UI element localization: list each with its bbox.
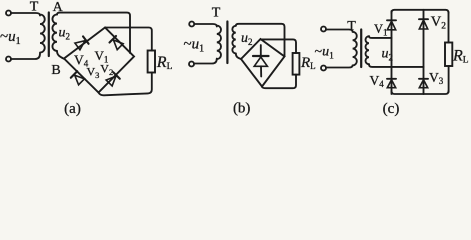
terminal (c) bottom input xyxy=(321,66,326,71)
diode V1 xyxy=(110,36,124,50)
transformer T2 core xyxy=(226,22,228,64)
top rail (c) xyxy=(392,10,449,13)
wire node A to bridge right vertex xyxy=(57,13,130,53)
wire secondary bottom to bridge left vertex (b) xyxy=(236,53,241,59)
diode V2 xyxy=(106,72,120,86)
svg-text:V3: V3 xyxy=(87,65,100,80)
bottom rail (c) xyxy=(392,91,449,94)
svg-text:~u1: ~u1 xyxy=(0,29,21,47)
svg-text:~u1: ~u1 xyxy=(184,37,205,55)
diode V4 (c) xyxy=(387,79,396,88)
wire (b) top input to primary xyxy=(194,24,216,27)
wire secondary bottom to branch-2 junction (c), crossing branch-1 xyxy=(369,64,424,67)
wire secondary top to branch-1 junction (c) xyxy=(369,36,392,38)
wire (c) bottom input to primary xyxy=(326,65,352,67)
svg-text:u2: u2 xyxy=(241,31,253,47)
svg-text:B: B xyxy=(51,63,60,78)
transformer T3 secondary winding xyxy=(366,36,370,64)
resistor RL (c) xyxy=(445,43,452,67)
svg-text:T: T xyxy=(212,5,221,20)
wire RL top lead (c) xyxy=(448,12,450,43)
branch-1 wire (c) full xyxy=(391,11,393,94)
diode V2 (c) xyxy=(419,19,428,29)
resistor RL (a) xyxy=(148,51,155,73)
wire (c) top input to primary xyxy=(326,30,352,32)
wire RL bottom to bridge bottom vertex xyxy=(99,73,152,96)
wire (a) bottom input to primary xyxy=(11,54,40,60)
bridge block diamond (b) xyxy=(241,39,285,87)
svg-text:(a): (a) xyxy=(64,101,81,117)
wire bridge top vertex to RL top xyxy=(105,28,152,51)
wire bridge top vertex to RL top (b) xyxy=(261,39,297,53)
svg-text:V2: V2 xyxy=(431,14,446,31)
transformer T3 primary winding xyxy=(353,32,357,66)
transformer T2 primary winding xyxy=(217,26,221,60)
svg-text:V4: V4 xyxy=(370,73,385,89)
diode V3 xyxy=(71,71,85,85)
svg-text:RL: RL xyxy=(156,54,173,72)
svg-text:(b): (b) xyxy=(233,101,251,117)
terminal (b) bottom input xyxy=(189,62,194,67)
transformer T1 primary winding xyxy=(40,15,45,53)
wire secondary top to bridge right vertex (b) xyxy=(236,24,285,56)
transformer T3 core xyxy=(360,30,362,68)
terminal (c) top input xyxy=(321,27,326,32)
transformer T1 core xyxy=(48,13,50,57)
diode V4 xyxy=(75,36,89,50)
diode V1 (c) xyxy=(387,20,396,30)
svg-text:RL: RL xyxy=(452,48,469,66)
svg-text:V1: V1 xyxy=(374,22,388,37)
resistor RL (b) xyxy=(293,53,300,75)
wire node B to bridge left vertex xyxy=(57,51,64,59)
svg-text:RL: RL xyxy=(300,55,316,71)
diode V3 (c) xyxy=(419,79,428,88)
wire (b) bottom input to primary xyxy=(194,59,217,64)
branch-2 wire (c) full xyxy=(423,10,425,94)
svg-text:u2: u2 xyxy=(59,26,71,42)
terminal (b) top input xyxy=(189,22,194,27)
wire RL bottom lead (c) xyxy=(448,66,450,92)
terminal (a) bottom input xyxy=(6,57,11,62)
transformer T1 secondary winding xyxy=(52,15,57,51)
svg-text:~u1: ~u1 xyxy=(315,45,335,62)
transformer T2 secondary winding xyxy=(232,26,235,54)
svg-text:V3: V3 xyxy=(429,70,444,86)
svg-text:T: T xyxy=(347,19,356,34)
wire (a) top input to primary xyxy=(11,13,40,16)
svg-text:V2: V2 xyxy=(100,62,113,77)
svg-text:(c): (c) xyxy=(383,101,400,117)
wire RL bottom to bridge bottom vertex (b) xyxy=(262,75,296,89)
bridge block internal diode (b) xyxy=(253,45,269,77)
bridge diamond (a) edges xyxy=(64,28,134,93)
terminal (a) top input xyxy=(6,11,11,16)
svg-text:T: T xyxy=(30,0,39,14)
